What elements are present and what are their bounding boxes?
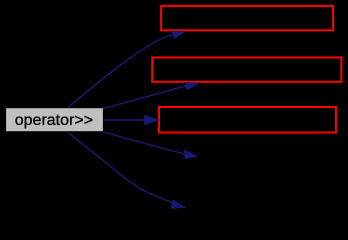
wire edge4 curve to hidden node4: [103, 132, 184, 154]
node3 red rect (label hidden): [159, 107, 336, 133]
svg-text:operator>>: operator>>: [15, 112, 93, 129]
arrowhead edge4: [184, 149, 198, 159]
wire edge2 curve to node2: [103, 86, 185, 109]
arrowhead edge3: [144, 115, 160, 126]
node2 red rect (label hidden): [152, 58, 341, 82]
node1 red rect (label hidden): [161, 6, 333, 30]
arrowhead edge5: [171, 199, 186, 209]
arrowhead edge1: [171, 31, 186, 40]
wire edge5 curve to hidden node5: [68, 133, 186, 208]
wire edge1 curve to node1: [68, 35, 173, 108]
node operator>> (grey box): [6, 108, 103, 131]
arrowhead edge2: [184, 82, 200, 91]
wire edge3 straight to node3: [104, 119, 147, 121]
